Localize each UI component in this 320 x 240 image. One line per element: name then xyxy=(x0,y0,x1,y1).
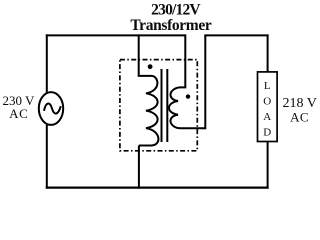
svg-text:L: L xyxy=(264,80,271,92)
wire left vertical lower (AC source to bottom) xyxy=(46,125,48,189)
transformer primary bottom lead wire xyxy=(138,146,140,189)
transformer secondary top lead wire xyxy=(184,34,186,87)
svg-text:218 V: 218 V xyxy=(283,96,317,111)
transformer enclosure (dash-dot box) xyxy=(120,60,197,151)
wire top-left horizontal (AC top to secondary tap) xyxy=(46,34,186,36)
ac source V1 (230 V AC) xyxy=(39,92,63,125)
primary polarity dot xyxy=(148,64,153,69)
secondary polarity dot xyxy=(186,94,190,98)
wire right vertical (secondary bottom up to top) xyxy=(204,35,206,129)
load box xyxy=(258,72,278,142)
wire left vertical upper (to AC source) xyxy=(46,34,48,92)
transformer secondary winding xyxy=(169,87,205,128)
svg-text:D: D xyxy=(263,127,271,139)
svg-text:O: O xyxy=(263,95,271,107)
transformer primary winding xyxy=(138,76,159,146)
svg-text:AC: AC xyxy=(290,110,309,125)
svg-text:A: A xyxy=(263,111,271,123)
wire top-right horizontal xyxy=(204,34,268,36)
svg-text:Transformer: Transformer xyxy=(130,17,212,34)
svg-text:AC: AC xyxy=(9,106,28,121)
transformer core (two bars) xyxy=(162,69,168,142)
transformer primary top lead wire xyxy=(138,34,140,76)
wire bottom horizontal xyxy=(46,186,269,188)
wire load bottom lead xyxy=(267,142,269,189)
wire load top lead xyxy=(267,34,269,72)
